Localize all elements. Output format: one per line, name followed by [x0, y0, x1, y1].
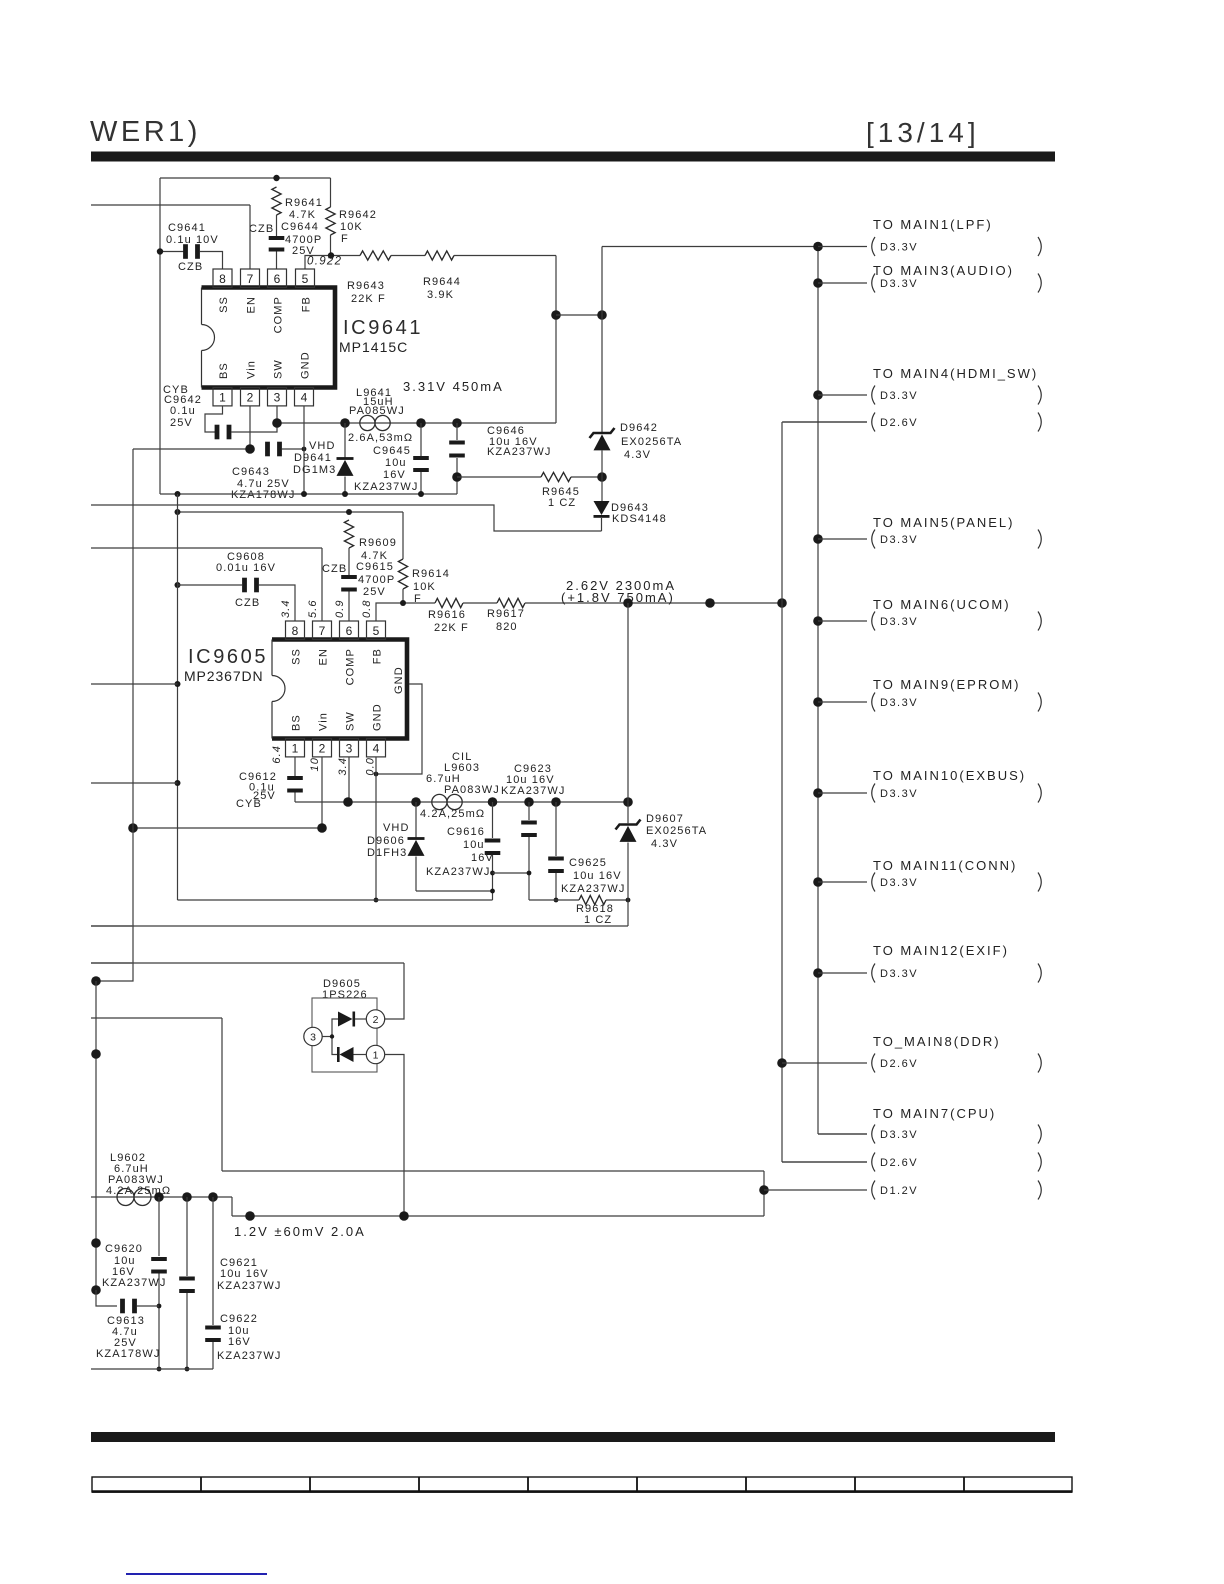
junction 3.3V bus y793: [813, 788, 823, 798]
wire return path y505: [91, 505, 602, 531]
pin circle 1 D9605: [366, 1045, 384, 1063]
wire C9621 top stem: [186, 1197, 188, 1276]
wire C9623 top stem: [528, 802, 530, 820]
junction 3.3V bus y283: [813, 278, 823, 288]
inductor L9641: [360, 415, 375, 430]
junction R9618 x628: [626, 898, 631, 903]
svg-text:D1.2V: D1.2V: [880, 1185, 918, 1197]
svg-text:MP1415C: MP1415C: [339, 339, 408, 355]
svg-text:SS: SS: [291, 648, 303, 665]
svg-text:10u: 10u: [463, 839, 485, 851]
connector paren left TO MAIN4(HDMI_SW) D2.6V: [872, 413, 875, 432]
svg-text:D3.3V: D3.3V: [880, 390, 918, 402]
svg-text:1PS226: 1PS226: [322, 989, 368, 1001]
wire zener column upper: [601, 247, 603, 434]
wire TO MAIN12(EXIF) D3.3V: [818, 972, 867, 974]
junction C9625 ground: [554, 898, 559, 903]
svg-text:1.2V ±60mV 2.0A: 1.2V ±60mV 2.0A: [234, 1224, 366, 1239]
wire 2.6V to MAIN7: [782, 1161, 867, 1163]
diode D9605 top half: [338, 1012, 353, 1027]
capacitor C9625: [548, 857, 564, 861]
svg-text:4.2A,25mΩ: 4.2A,25mΩ: [420, 808, 485, 820]
wire EN to pin7 IC9605: [321, 548, 323, 621]
junction R9641 top: [273, 175, 279, 181]
wire D9642 to D9643: [601, 451, 603, 502]
pin 7 IC9605: [313, 621, 332, 639]
wire 2.6V to MAIN4: [782, 421, 867, 423]
svg-text:GND: GND: [372, 703, 384, 731]
top rule bar: [91, 152, 1055, 162]
revision table: [92, 1477, 1072, 1492]
wire R9643 to R9644: [391, 255, 425, 257]
wire Vin to input bus: [133, 448, 250, 450]
svg-text:R9614: R9614: [412, 568, 450, 580]
svg-text:2: 2: [373, 1014, 379, 1026]
wire D9643 cathode stem: [601, 518, 603, 531]
svg-text:16V: 16V: [228, 1336, 251, 1348]
svg-text:D1FH3: D1FH3: [367, 847, 407, 859]
junction D9606 top: [411, 797, 421, 807]
svg-text:0.9: 0.9: [334, 599, 346, 618]
junction C9625 top: [551, 797, 561, 807]
junction C9608 on ground bus: [175, 582, 181, 588]
svg-text:D3.3V: D3.3V: [880, 278, 918, 290]
svg-text:820: 820: [496, 621, 518, 633]
connector paren right TO MAIN9(EPROM) D3.3V: [1038, 693, 1041, 712]
connector paren right TO MAIN4(HDMI_SW) D3.3V: [1038, 386, 1041, 405]
wire C9621 bottom stem: [186, 1293, 188, 1369]
junction Vin pin2 IC9605: [317, 823, 327, 833]
wire pin3 SW IC9605: [348, 757, 350, 802]
wire FB pin5 IC9605: [376, 603, 435, 621]
junction output column x628: [623, 797, 633, 807]
svg-text:TO MAIN6(UCOM): TO MAIN6(UCOM): [873, 597, 1011, 612]
svg-text:D3.3V: D3.3V: [880, 968, 918, 980]
wire R9618 to x628: [606, 899, 628, 901]
wire D9606 top stem: [415, 802, 417, 838]
junction Vin node: [245, 444, 255, 454]
connector paren left TO_MAIN8(DDR) D2.6V: [872, 1054, 875, 1073]
svg-text:R9616: R9616: [428, 609, 466, 621]
svg-text:2: 2: [319, 742, 326, 756]
wire TO MAIN4(HDMI_SW) D3.3V: [818, 394, 867, 396]
junction D9641 ground: [342, 491, 348, 497]
pin circle 3 D9605: [304, 1027, 322, 1045]
svg-text:3: 3: [346, 742, 353, 756]
wire ground rail right: [529, 899, 579, 901]
wire C9645 bottom stem: [420, 472, 422, 494]
inductor L9602: [117, 1189, 134, 1206]
svg-text:C9645: C9645: [373, 445, 411, 457]
svg-text:Vin: Vin: [318, 712, 330, 731]
svg-text:EX0256TA: EX0256TA: [646, 825, 707, 837]
svg-text:EN: EN: [246, 296, 258, 313]
connector paren right TO MAIN5(PANEL) D3.3V: [1038, 530, 1041, 549]
svg-text:1 CZ: 1 CZ: [584, 914, 612, 926]
svg-text:22K F: 22K F: [351, 293, 386, 305]
junction C9643 right: [302, 447, 307, 452]
wire C9623 bottom stem: [528, 837, 530, 900]
svg-text:VHD: VHD: [383, 822, 410, 834]
svg-text:IC9605: IC9605: [188, 646, 268, 668]
wire C9612 to SW rail: [295, 801, 348, 803]
svg-text:25V: 25V: [363, 586, 386, 598]
wire pin3 SW: [276, 406, 278, 423]
connector paren left TO MAIN5(PANEL) D3.3V: [872, 530, 875, 549]
svg-text:CZB: CZB: [249, 223, 274, 235]
junction D1.2V tap: [759, 1185, 769, 1195]
svg-text:PA083WJ: PA083WJ: [444, 784, 500, 796]
svg-text:KZA237WJ: KZA237WJ: [426, 866, 490, 878]
connector paren right TO MAIN11(CONN) D3.3V: [1038, 873, 1041, 892]
connector paren left TO MAIN11(CONN) D3.3V: [872, 873, 875, 892]
svg-text:6: 6: [346, 624, 353, 638]
svg-text:KZA237WJ: KZA237WJ: [561, 883, 625, 895]
svg-text:TO MAIN10(EXBUS): TO MAIN10(EXBUS): [873, 768, 1026, 783]
wire input bus x96: [95, 981, 97, 1290]
junction 3.3V bus y702: [813, 697, 823, 707]
svg-text:10K: 10K: [413, 581, 436, 593]
wire ground rail IC9641: [160, 493, 457, 495]
wire C9616 top stem: [492, 802, 494, 838]
resistor R9642: [326, 207, 335, 235]
wire TO MAIN1(LPF) D3.3V: [818, 246, 867, 248]
junction Vin bus IC9605: [128, 823, 138, 833]
wire 1.2V right x764: [763, 1171, 765, 1216]
junction SW node: [272, 418, 282, 428]
svg-text:F: F: [341, 233, 349, 245]
svg-text:1: 1: [219, 391, 226, 405]
svg-text:0.922: 0.922: [307, 256, 342, 268]
wire C9622 bottom stem: [212, 1342, 214, 1369]
wire SW output rail IC9605: [348, 801, 628, 803]
svg-text:TO MAIN11(CONN): TO MAIN11(CONN): [873, 858, 1017, 873]
wire EN to pin7: [249, 205, 251, 269]
svg-text:TO_MAIN8(DDR): TO_MAIN8(DDR): [873, 1034, 1001, 1049]
svg-text:WER1): WER1): [90, 116, 201, 148]
wire C9646 top stem: [456, 423, 458, 440]
junction x96 y1054: [91, 1049, 101, 1059]
svg-text:CYB: CYB: [236, 798, 262, 810]
svg-text:CZB: CZB: [235, 597, 260, 609]
svg-text:COMP: COMP: [273, 296, 285, 333]
svg-text:16V: 16V: [383, 469, 406, 481]
svg-text:(+1.8V 750mA): (+1.8V 750mA): [561, 590, 675, 605]
junction x602 y315: [597, 310, 607, 320]
junction R9645 zener column: [597, 472, 607, 482]
pin 5 IC9605: [367, 621, 386, 639]
junction ground y684: [175, 681, 181, 687]
wire D9605 pin2 feed: [385, 963, 405, 1019]
wire D9605 pin1 out: [385, 1055, 405, 1217]
svg-text:KDS4148: KDS4148: [612, 513, 667, 525]
capacitor C9615: [341, 575, 357, 579]
junction C9622 top: [208, 1192, 218, 1202]
connector paren left TO MAIN12(EXIF) D3.3V: [872, 964, 875, 983]
svg-text:4.7K: 4.7K: [289, 209, 316, 221]
svg-text:BS: BS: [291, 714, 303, 731]
wire C9641 left: [160, 251, 184, 253]
wire C9620 bottom stem: [158, 1274, 160, 1370]
svg-text:4: 4: [373, 742, 380, 756]
capacitor C9616: [485, 839, 501, 843]
svg-text:1: 1: [373, 1050, 379, 1062]
connector paren right TO MAIN1(LPF) D3.3V: [1038, 237, 1041, 256]
resistor R9618: [579, 895, 606, 904]
junction C9645 ground: [418, 491, 424, 497]
diode D9641: [337, 457, 354, 460]
capacitor C9645: [413, 456, 429, 460]
svg-text:GND: GND: [300, 351, 312, 379]
junction pin4 ground rail: [374, 898, 379, 903]
connector paren left TO MAIN6(UCOM) D3.3V: [872, 612, 875, 631]
connector paren left TO MAIN7(CPU) D1.2V: [872, 1181, 875, 1200]
svg-text:R9609: R9609: [359, 537, 397, 549]
svg-text:D2.6V: D2.6V: [880, 1157, 918, 1169]
svg-text:10u 16V: 10u 16V: [220, 1268, 269, 1280]
wire VCC top loop: [160, 177, 331, 179]
svg-text:KZA237WJ: KZA237WJ: [217, 1350, 281, 1362]
svg-text:KZA237WJ: KZA237WJ: [102, 1277, 166, 1289]
svg-text:TO MAIN9(EPROM): TO MAIN9(EPROM): [873, 677, 1021, 692]
resistor R9643: [360, 251, 391, 260]
svg-text:FB: FB: [372, 648, 384, 664]
svg-text:6.4: 6.4: [271, 745, 283, 764]
pin 8 IC9641: [213, 269, 232, 287]
junction y603 2.6V bus: [777, 598, 787, 608]
wire stub y963: [91, 962, 404, 964]
svg-text:3.31V 450mA: 3.31V 450mA: [403, 379, 504, 394]
wire TO MAIN6(UCOM) D3.3V: [818, 620, 867, 622]
svg-text:2.6A,53mΩ: 2.6A,53mΩ: [348, 432, 413, 444]
wire ground bus x160: [159, 178, 161, 494]
wire R9614 bottom stem: [402, 589, 404, 603]
svg-text:TO MAIN3(AUDIO): TO MAIN3(AUDIO): [873, 263, 1014, 278]
junction C9621 ground: [185, 1367, 190, 1372]
junction C9621 top: [182, 1192, 192, 1202]
wire pin1 BS jog: [205, 406, 223, 432]
pin 8 IC9605: [286, 621, 305, 639]
svg-text:7: 7: [319, 624, 326, 638]
junction C9616 top: [488, 797, 498, 807]
svg-text:KZA237WJ: KZA237WJ: [354, 481, 418, 493]
connector paren right TO MAIN4(HDMI_SW) D2.6V: [1038, 413, 1041, 432]
wire 1.2V rail y1216: [232, 1215, 764, 1217]
capacitor C9643: [265, 442, 270, 457]
svg-text:10u: 10u: [385, 457, 407, 469]
pin 1 IC9641: [213, 388, 232, 406]
capacitor C9641: [183, 244, 188, 259]
svg-text:SW: SW: [273, 359, 285, 379]
svg-text:D2.6V: D2.6V: [880, 1058, 918, 1070]
connector paren right TO MAIN3(AUDIO) D3.3V: [1038, 274, 1041, 293]
junction 3.3V bus y539: [813, 534, 823, 544]
capacitor C9642: [215, 425, 220, 440]
wire 1.2V riser x222: [221, 1018, 223, 1171]
package outline D9605: [312, 998, 377, 1072]
wire 2.6V bus: [781, 422, 783, 1162]
pin 5 IC9641: [296, 269, 315, 287]
svg-text:1: 1: [292, 742, 299, 756]
pin 3 IC9605: [340, 739, 359, 757]
svg-text:TO MAIN5(PANEL): TO MAIN5(PANEL): [873, 515, 1014, 530]
junction y1216 D9605: [399, 1211, 409, 1221]
svg-text:KZA237WJ: KZA237WJ: [487, 446, 551, 458]
svg-text:10K: 10K: [340, 221, 363, 233]
wire pin2 Vin: [249, 406, 251, 449]
resistor R9616: [435, 598, 463, 607]
wire ground bus x178: [177, 494, 179, 900]
junction C9646 bottom R9645: [452, 472, 462, 482]
connector paren right TO MAIN12(EXIF) D3.3V: [1038, 964, 1041, 983]
junction R9642 bottom on FB: [328, 252, 334, 258]
wire EN stub: [91, 204, 250, 206]
wire C9646 bottom stem: [456, 458, 458, 494]
junction C9616 y873: [490, 871, 495, 876]
junction C9620 ground: [157, 1367, 162, 1372]
svg-text:25V: 25V: [170, 417, 193, 429]
connector paren left TO MAIN1(LPF) D3.3V: [872, 237, 875, 256]
wire EN stub IC9605: [91, 547, 322, 549]
junction 3.3V bus y973: [813, 968, 823, 978]
wire L9602 step down: [231, 1197, 233, 1216]
wire TO MAIN3(AUDIO) D3.3V: [818, 282, 867, 284]
wire GND side jog: [376, 684, 422, 774]
wire C9616 bottom stem: [492, 855, 494, 900]
wire pin4 GND: [303, 406, 305, 494]
wire stub y927: [91, 925, 132, 927]
resistor R9645: [541, 472, 571, 481]
svg-text:KZA237WJ: KZA237WJ: [501, 785, 565, 797]
bottom rule bar: [91, 1432, 1055, 1442]
svg-text:C9644: C9644: [281, 221, 319, 233]
svg-text:C9616: C9616: [447, 826, 485, 838]
wire FB pin5: [305, 256, 360, 270]
svg-text:4.3V: 4.3V: [624, 449, 651, 461]
svg-text:C9641: C9641: [168, 222, 206, 234]
diode D9643: [594, 501, 610, 515]
wire C9622 top stem: [212, 1197, 214, 1325]
svg-text:5: 5: [302, 272, 309, 286]
svg-text:MP2367DN: MP2367DN: [184, 668, 264, 684]
connector paren left TO MAIN9(EPROM) D3.3V: [872, 693, 875, 712]
wire L9602 input stub: [91, 1196, 232, 1198]
wire tie y873: [493, 872, 530, 874]
wire stub y1018: [91, 1017, 222, 1019]
svg-text:10u 16V: 10u 16V: [573, 870, 622, 882]
junction ground x178: [175, 491, 181, 497]
junction ground bus y512: [175, 509, 181, 515]
junction GND jog pin4: [374, 772, 379, 777]
svg-text:C9625: C9625: [569, 857, 607, 869]
junction C9616 y891: [490, 889, 495, 894]
svg-text:BS: BS: [218, 362, 230, 379]
svg-text:D3.3V: D3.3V: [880, 697, 918, 709]
wire D9641 bottom stem: [344, 477, 346, 495]
svg-text:6: 6: [274, 272, 281, 286]
wire C9625 bottom stem: [555, 873, 557, 900]
svg-text:GND: GND: [393, 666, 405, 694]
wire pin4 GND IC9605: [375, 757, 377, 900]
pin 2 IC9641: [241, 388, 260, 406]
wire TO MAIN7(CPU) D2.6V: [782, 1161, 867, 1163]
svg-text:C9622: C9622: [220, 1313, 258, 1325]
connector paren left TO MAIN4(HDMI_SW) D3.3V: [872, 386, 875, 405]
diode D9606: [408, 837, 425, 840]
junction x96 y1243: [91, 1238, 101, 1248]
wire D9605 internal top: [332, 1019, 338, 1037]
svg-text:C9643: C9643: [232, 466, 270, 478]
wire 3.3V to MAIN7: [818, 1133, 867, 1135]
op-amp IC9641 body MP1415C: [202, 288, 336, 388]
svg-text:3: 3: [310, 1032, 316, 1044]
junction 3.3V bus y395: [813, 390, 823, 400]
pin 2 IC9605: [313, 739, 332, 757]
svg-text:DG1M3: DG1M3: [293, 464, 336, 476]
connector paren right TO MAIN10(EXBUS) D3.3V: [1038, 784, 1041, 803]
junction C9645 top: [416, 418, 426, 428]
wire D9641 top stem: [344, 423, 346, 458]
resistor R9609: [344, 520, 353, 548]
svg-text:0.1u 10V: 0.1u 10V: [166, 234, 219, 246]
footer link line: [126, 1573, 267, 1575]
wire input bus x133: [96, 449, 133, 981]
wire C9644 to pin6: [276, 252, 278, 270]
svg-text:SW: SW: [345, 711, 357, 731]
svg-text:D9606: D9606: [367, 835, 405, 847]
wire R9616 to R9617: [463, 602, 497, 604]
junction R9614 bottom FB: [400, 600, 406, 606]
svg-text:5.6: 5.6: [307, 599, 319, 618]
resistor R9641: [272, 187, 281, 215]
svg-text:R9641: R9641: [285, 197, 323, 209]
wire TO MAIN4(HDMI_SW) D2.6V: [783, 421, 867, 423]
resistor R9644: [425, 251, 454, 260]
wire C9645 top stem: [420, 423, 422, 456]
resistor R9617: [497, 598, 525, 607]
svg-text:8: 8: [219, 272, 226, 286]
svg-text:KZA178WJ: KZA178WJ: [96, 1348, 160, 1360]
svg-text:Vin: Vin: [246, 360, 258, 379]
capacitor C9608: [242, 578, 247, 593]
svg-text:3.4: 3.4: [280, 599, 292, 618]
svg-text:3: 3: [274, 391, 281, 405]
junction SW node IC9605: [343, 797, 353, 807]
svg-text:0.8: 0.8: [361, 599, 373, 618]
capacitor C9613: [120, 1299, 125, 1314]
svg-text:[13/14]: [13/14]: [866, 117, 980, 148]
svg-text:4.3V: 4.3V: [651, 838, 678, 850]
capacitor C9621: [179, 1277, 195, 1281]
svg-text:TO MAIN7(CPU): TO MAIN7(CPU): [873, 1106, 996, 1121]
wire TO_MAIN8(DDR) D2.6V: [782, 1062, 867, 1064]
svg-text:C9615: C9615: [356, 561, 394, 573]
wire SW output rail: [277, 422, 556, 424]
capacitor C9622: [205, 1326, 221, 1330]
svg-text:D3.3V: D3.3V: [880, 877, 918, 889]
svg-text:KZA237WJ: KZA237WJ: [217, 1280, 281, 1292]
wire jog y315: [556, 314, 602, 316]
connector paren right TO MAIN6(UCOM) D3.3V: [1038, 612, 1041, 631]
junction D9605 internal: [330, 1034, 334, 1038]
junction R9609 top: [346, 509, 352, 515]
wire ground stub y783: [91, 782, 178, 784]
wire C9615 to pin6: [348, 592, 350, 622]
junction C9620 top: [154, 1192, 164, 1202]
svg-text:D9642: D9642: [620, 422, 658, 434]
pin 6 IC9605: [340, 621, 359, 639]
wire ground rail left: [178, 899, 493, 901]
